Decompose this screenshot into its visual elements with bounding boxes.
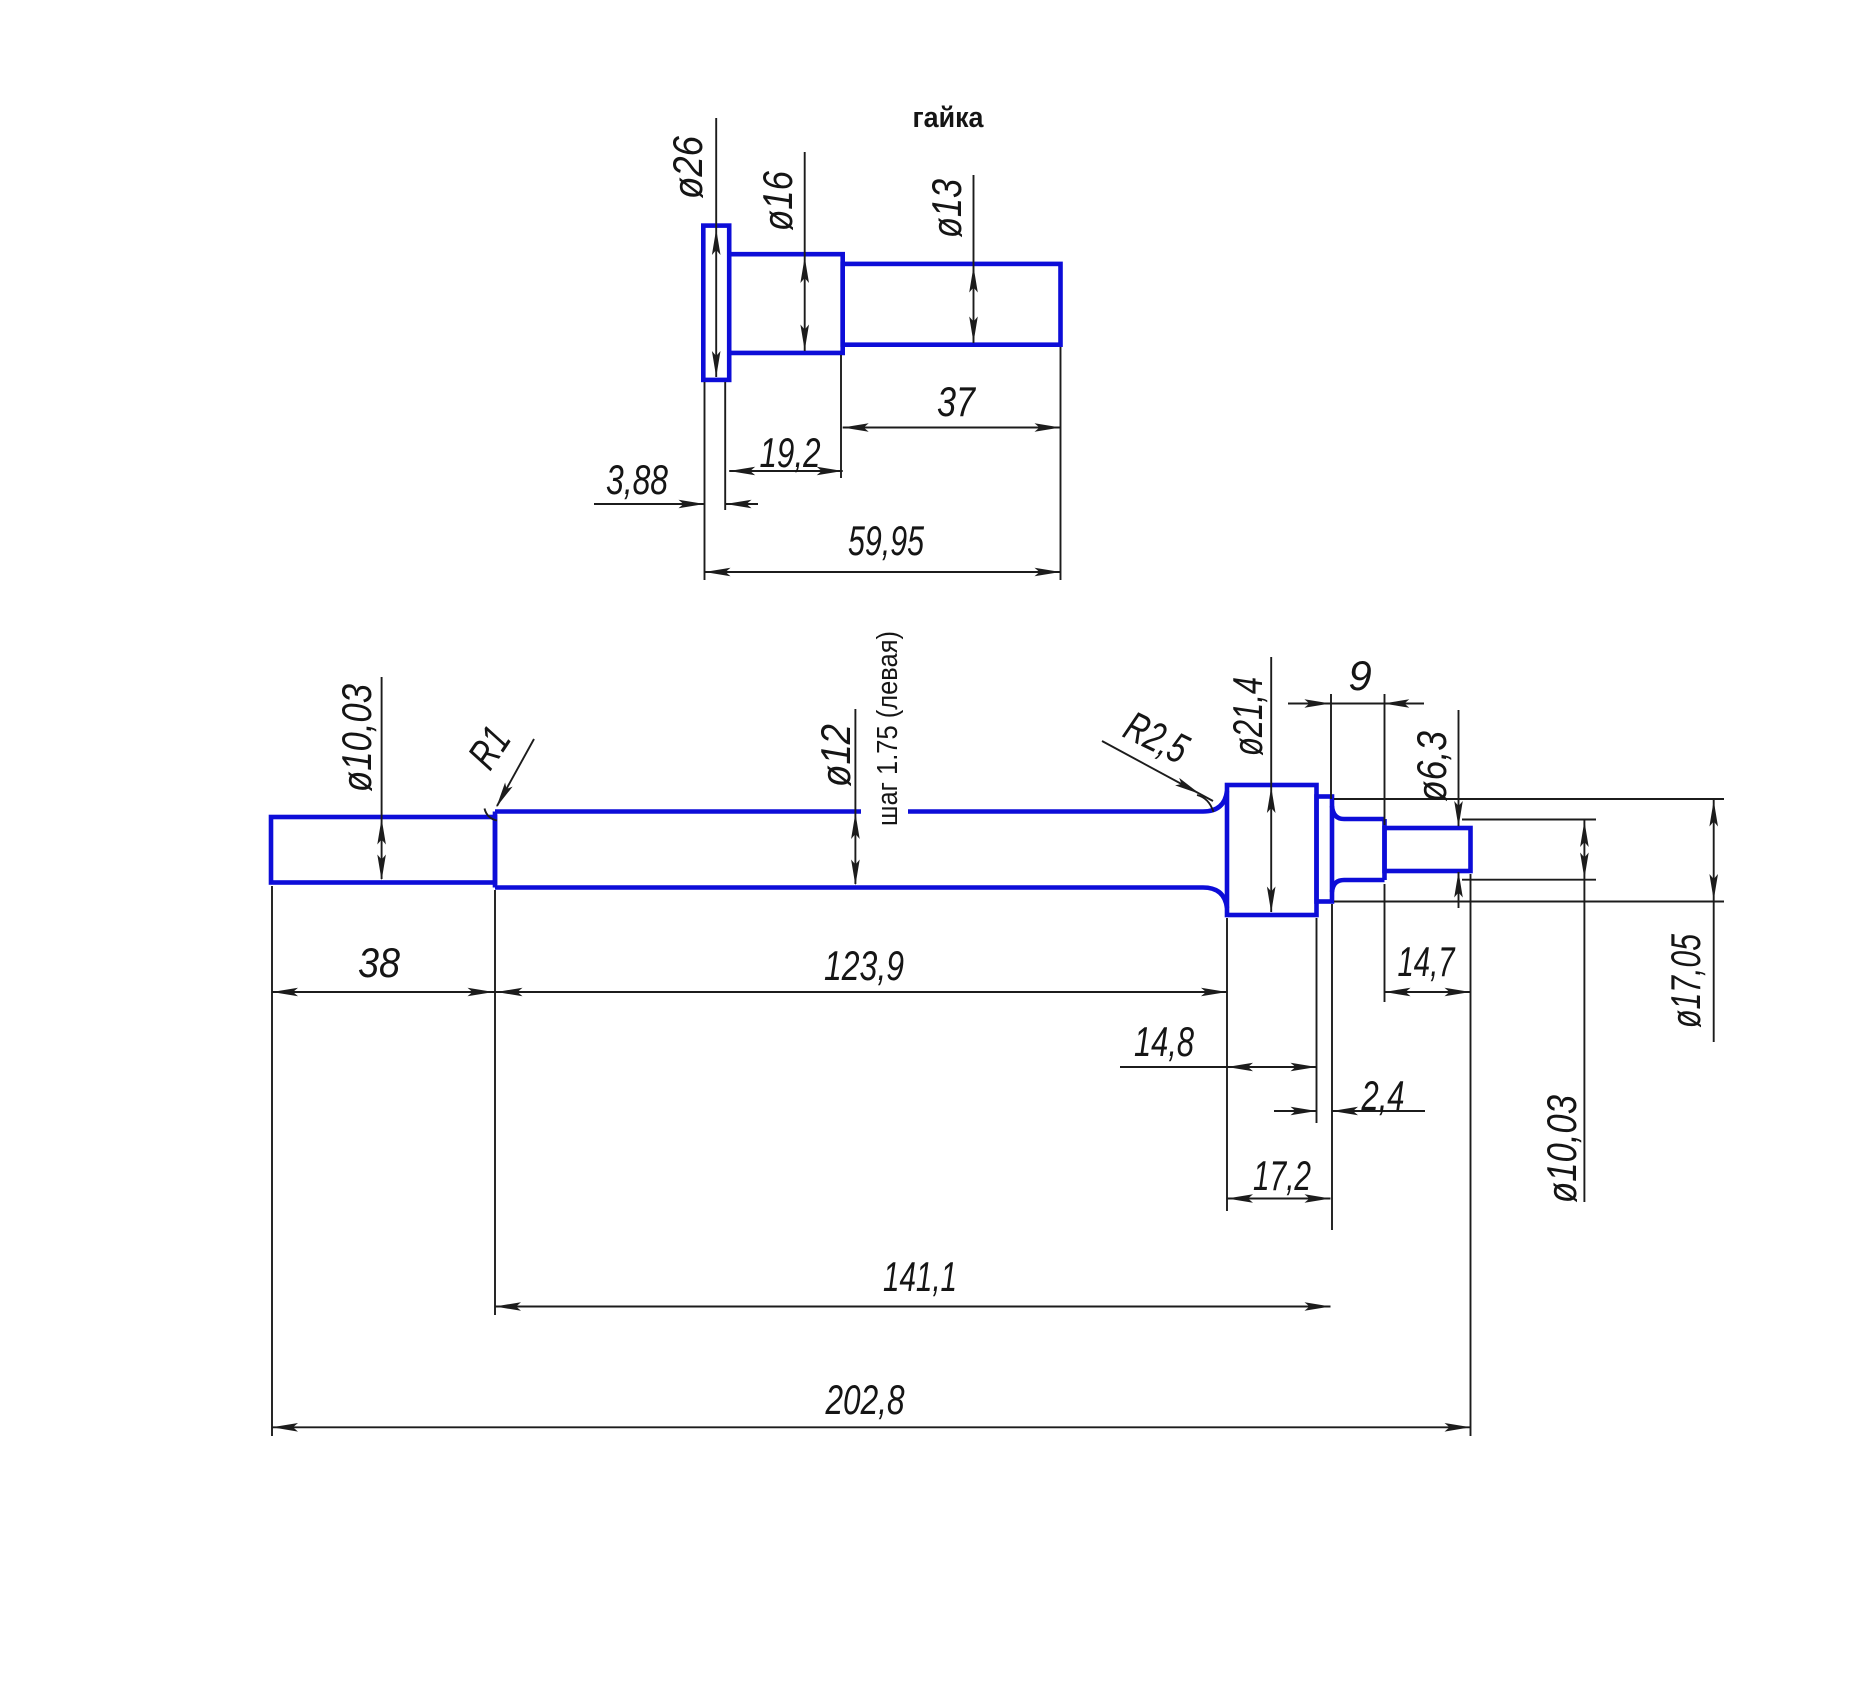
svg-text:123,9: 123,9 (824, 942, 904, 989)
svg-text:3,88: 3,88 (606, 456, 668, 503)
svg-text:19,2: 19,2 (760, 429, 821, 476)
svg-text:ø17,05: ø17,05 (1662, 934, 1709, 1028)
svg-text:ø6,3: ø6,3 (1408, 731, 1455, 802)
svg-text:ø12: ø12 (812, 724, 859, 787)
svg-text:9: 9 (1348, 652, 1371, 699)
svg-text:14,7: 14,7 (1398, 938, 1456, 985)
svg-text:17,2: 17,2 (1253, 1152, 1311, 1199)
svg-text:59,95: 59,95 (848, 517, 924, 564)
svg-text:141,1: 141,1 (883, 1253, 957, 1300)
svg-text:38: 38 (358, 939, 401, 986)
svg-text:R2,5: R2,5 (1117, 702, 1196, 773)
svg-text:2,4: 2,4 (1361, 1072, 1405, 1119)
svg-text:ø21,4: ø21,4 (1224, 677, 1271, 756)
svg-text:шаг 1.75 (левая): шаг 1.75 (левая) (872, 631, 904, 826)
svg-text:ø16: ø16 (754, 170, 801, 231)
svg-text:гайка: гайка (913, 102, 985, 134)
svg-text:R1: R1 (458, 718, 519, 777)
svg-text:ø10,03: ø10,03 (1538, 1095, 1585, 1203)
svg-text:202,8: 202,8 (825, 1376, 905, 1423)
svg-text:ø10,03: ø10,03 (333, 684, 380, 792)
svg-text:37: 37 (937, 378, 976, 425)
svg-text:ø26: ø26 (664, 135, 711, 199)
svg-text:ø13: ø13 (923, 179, 970, 238)
svg-text:14,8: 14,8 (1134, 1018, 1194, 1065)
